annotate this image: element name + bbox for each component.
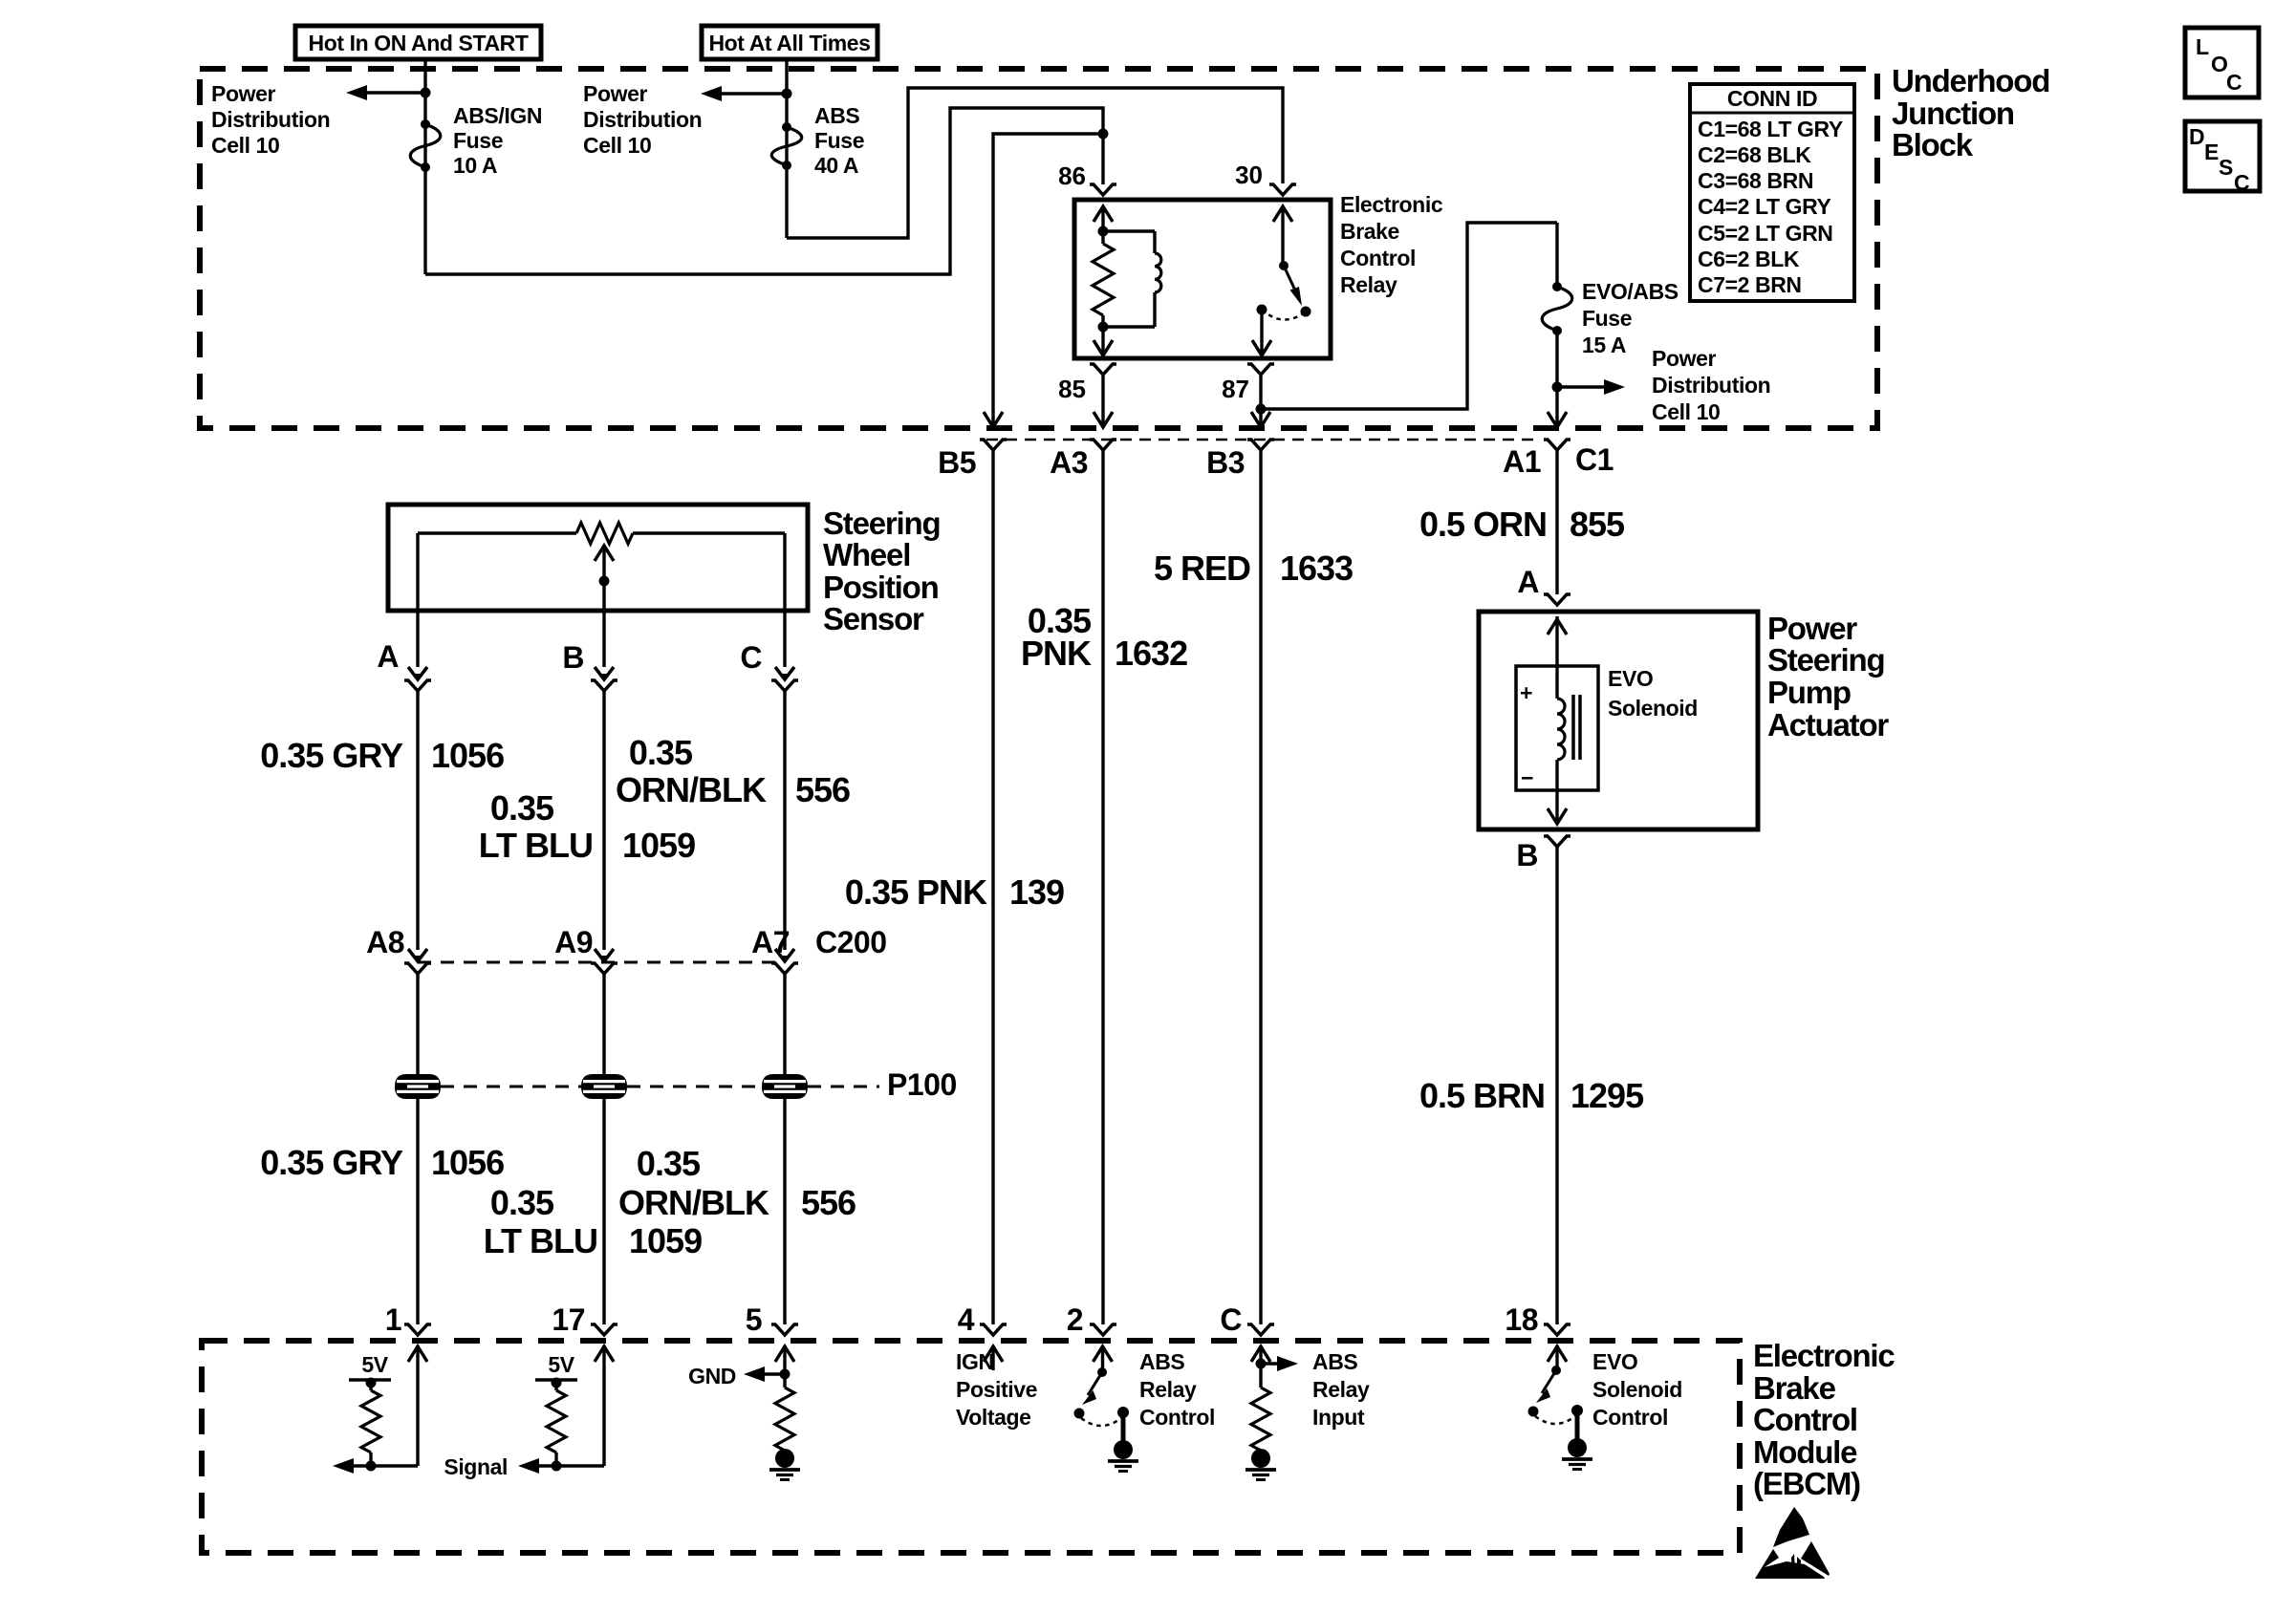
svg-text:Power: Power bbox=[1767, 611, 1857, 646]
svg-text:Steering: Steering bbox=[823, 506, 940, 541]
svg-text:30: 30 bbox=[1235, 161, 1263, 189]
connector chevron B3 bbox=[1247, 440, 1274, 450]
label: pin 85 bbox=[1058, 375, 1086, 403]
wire: pin C to C200 (0.35 ORN/BLK 556) bbox=[783, 691, 786, 950]
grommet P100 pass-through wire B bbox=[581, 1074, 627, 1099]
wire: A3 to EBCM pin 2 (0.35 PNK 1632) bbox=[1101, 450, 1104, 1324]
resistor R3 pin 1 pull-up bbox=[361, 1383, 380, 1466]
svg-text:Fuse: Fuse bbox=[1582, 306, 1632, 331]
solenoid core bars bbox=[1573, 695, 1580, 760]
svg-text:C200: C200 bbox=[815, 925, 887, 959]
arrow: EBCM pin 18 entry bbox=[1548, 1345, 1567, 1371]
arrow: B5 wire into EBCM connector line bbox=[984, 412, 1003, 427]
svg-text:A3: A3 bbox=[1050, 445, 1088, 480]
arrow: power distribution tap (left) from ABS feed bbox=[701, 86, 787, 101]
connector chevron at relay pin 85 bbox=[1090, 364, 1116, 375]
svg-text:(EBCM): (EBCM) bbox=[1753, 1466, 1860, 1501]
svg-text:2: 2 bbox=[1067, 1302, 1083, 1337]
resistor R6 pin C to ground bbox=[1251, 1388, 1270, 1451]
label: 0.35 GRY 1056 (upper) bbox=[260, 736, 504, 775]
svg-text:C: C bbox=[2226, 70, 2242, 95]
wire: sensor element left leg to pin A bbox=[416, 533, 419, 611]
legend box DESC bbox=[2185, 121, 2260, 195]
arrow: power distribution tap (right) bbox=[1557, 379, 1625, 395]
connector chevron A3 bbox=[1090, 440, 1116, 450]
svg-text:C: C bbox=[740, 640, 762, 675]
label: Power Distribution Cell 10 (left) bbox=[211, 81, 330, 158]
connector table CONN ID bbox=[1690, 84, 1854, 301]
svg-text:Electronic: Electronic bbox=[1753, 1338, 1895, 1373]
svg-text:Sensor: Sensor bbox=[823, 601, 924, 636]
relay K1 Electronic Brake Control Relay (box) bbox=[1074, 200, 1331, 358]
svg-text:EVO: EVO bbox=[1592, 1349, 1637, 1374]
label: EVO/ABS Fuse 15 A bbox=[1582, 279, 1679, 357]
label: connector C200 bbox=[815, 925, 887, 959]
fuse F2 ABS Fuse 40 A bbox=[771, 122, 802, 170]
svg-text:Solenoid: Solenoid bbox=[1608, 696, 1698, 721]
fuse F3 EVO/ABS Fuse 15 A bbox=[1542, 282, 1572, 335]
label: 0.5 ORN 855 bbox=[1419, 505, 1625, 544]
resistor R5 pin 5 to ground bbox=[775, 1388, 794, 1451]
C200 crossing marks wire C bbox=[771, 949, 798, 974]
svg-text:ORN/BLK: ORN/BLK bbox=[616, 770, 767, 809]
svg-text:Control: Control bbox=[1753, 1402, 1857, 1437]
svg-text:10 A: 10 A bbox=[453, 153, 497, 178]
arrow: pin C ABS Relay Input (right) bbox=[1261, 1356, 1298, 1371]
label: pin 86 bbox=[1058, 161, 1086, 190]
node: pin C junction dot bbox=[1256, 1359, 1267, 1369]
connector chevron EBCM pin 5 bbox=[771, 1324, 798, 1335]
arrow: actuator pin A entering solenoid bbox=[1548, 616, 1567, 666]
svg-text:GND: GND bbox=[688, 1364, 736, 1388]
svg-text:Fuse: Fuse bbox=[814, 128, 864, 153]
label: terminal A3 bbox=[1050, 445, 1088, 480]
label: Steering Wheel Position Sensor bbox=[823, 506, 940, 636]
svg-text:0.35 PNK: 0.35 PNK bbox=[845, 872, 987, 912]
svg-text:ORN/BLK: ORN/BLK bbox=[618, 1183, 769, 1222]
steering wheel position sensor (box) bbox=[388, 505, 808, 611]
svg-text:1056: 1056 bbox=[431, 736, 504, 775]
node: junction dot EVO fuse output bbox=[1552, 382, 1563, 393]
label: 0.35 ORN/BLK 556 (lower) bbox=[618, 1144, 856, 1222]
svg-text:E: E bbox=[2204, 140, 2219, 164]
power steering pump actuator (box) bbox=[1479, 612, 1758, 829]
wire: EVO/ABS fuse output down to A1/C1 terminal bbox=[1555, 331, 1558, 424]
svg-text:1059: 1059 bbox=[629, 1221, 702, 1260]
svg-text:0.35: 0.35 bbox=[629, 733, 693, 772]
switch throw arc (dashed) bbox=[1262, 310, 1306, 320]
svg-text:Power: Power bbox=[211, 81, 275, 106]
svg-text:0.5 ORN: 0.5 ORN bbox=[1419, 505, 1547, 544]
label: EBCM pin C bbox=[1220, 1302, 1242, 1337]
wire: P100 to EBCM pin 17 (0.35 LT BLU 1059) bbox=[602, 1099, 605, 1324]
wire: pin 18 switch to ground bbox=[1575, 1410, 1580, 1440]
label: Electronic Brake Control Module (EBCM) bbox=[1753, 1338, 1895, 1501]
label: EBCM pin 4 bbox=[958, 1302, 975, 1337]
wire: pin 2 switch to ground bbox=[1121, 1412, 1126, 1442]
label: C200 terminal A9 bbox=[554, 925, 593, 959]
svg-text:Electronic: Electronic bbox=[1340, 192, 1443, 217]
wire: relay pin 85 to A3 terminal bbox=[1101, 376, 1104, 424]
svg-text:5: 5 bbox=[746, 1302, 762, 1337]
svg-text:Actuator: Actuator bbox=[1767, 707, 1889, 742]
label: EBCM pin 1 bbox=[385, 1302, 401, 1337]
svg-text:Solenoid: Solenoid bbox=[1592, 1377, 1682, 1402]
wire: relay pin 87 down to B3 terminal bbox=[1259, 376, 1262, 424]
arrow: relay pin 85 exit (down) bbox=[1094, 327, 1113, 355]
connector chevron B5 bbox=[980, 440, 1007, 450]
svg-text:Hot In ON And START: Hot In ON And START bbox=[308, 31, 528, 55]
label: EBCM pin 17 bbox=[552, 1302, 585, 1337]
svg-text:Input: Input bbox=[1312, 1405, 1365, 1430]
svg-text:18: 18 bbox=[1505, 1302, 1538, 1337]
solenoid L2 EVO solenoid coil bbox=[1557, 666, 1565, 790]
svg-text:Steering: Steering bbox=[1767, 642, 1884, 678]
connector marks below sensor pin A bbox=[404, 611, 431, 691]
svg-text:A: A bbox=[377, 639, 399, 674]
svg-text:Control: Control bbox=[1139, 1405, 1215, 1430]
label: ABS Fuse 40 A bbox=[814, 103, 864, 178]
label: 0.5 BRN 1295 bbox=[1419, 1076, 1644, 1115]
underhood junction block boundary (dashed box) bbox=[200, 69, 1877, 428]
svg-text:1295: 1295 bbox=[1570, 1076, 1644, 1115]
label: actuator pin B bbox=[1516, 838, 1538, 872]
svg-text:0.35: 0.35 bbox=[490, 1183, 554, 1222]
svg-text:A1: A1 bbox=[1503, 444, 1541, 479]
svg-text:A: A bbox=[1517, 565, 1539, 599]
fuse F1 ABS/IGN Fuse 10 A bbox=[410, 119, 441, 172]
svg-text:Hot At All Times: Hot At All Times bbox=[708, 31, 870, 55]
node: relay fixed contact dot (pin 87) bbox=[1257, 305, 1267, 315]
label: Underhood Junction Block bbox=[1892, 63, 2049, 162]
svg-text:A9: A9 bbox=[554, 925, 593, 959]
arrow: EBCM pin C entry bbox=[1251, 1345, 1270, 1388]
svg-text:Power: Power bbox=[583, 81, 647, 106]
arrow: EBCM pin 17 entry bbox=[595, 1345, 614, 1466]
EVO solenoid inner box bbox=[1516, 666, 1598, 790]
EBCM boundary Electronic Brake Control Module (dashed box) bbox=[202, 1341, 1740, 1553]
svg-text:B: B bbox=[1516, 838, 1538, 872]
label: ABS/IGN Fuse 10 A bbox=[453, 103, 542, 178]
svg-text:Voltage: Voltage bbox=[956, 1405, 1031, 1430]
label: Hot In ON And START box bbox=[295, 26, 541, 59]
arrow: EBCM pin 5 entry bbox=[775, 1345, 794, 1388]
svg-text:−: − bbox=[1521, 765, 1533, 790]
label: 5V (pin 1 pull-up) bbox=[361, 1352, 388, 1377]
connector chevron at actuator pin B bbox=[1544, 836, 1570, 847]
label: 0.35 GRY 1056 (lower) bbox=[260, 1143, 504, 1182]
arrow: actuator pin B exit (down) bbox=[1548, 790, 1567, 824]
svg-text:139: 139 bbox=[1009, 872, 1064, 912]
grommet P100 pass-through wire A bbox=[395, 1074, 441, 1099]
wire: C200 to P100 wire A bbox=[416, 974, 419, 1074]
svg-text:17: 17 bbox=[552, 1302, 585, 1337]
label: C200 terminal A8 bbox=[366, 925, 404, 959]
legend box LOC bbox=[2185, 28, 2259, 97]
resistor R1 inside relay (parallel with coil) bbox=[1093, 231, 1114, 327]
label: 0.35 PNK 1632 bbox=[1021, 601, 1187, 673]
wire: C200 to P100 wire B bbox=[602, 974, 605, 1074]
wire: sensor element right leg to pin C bbox=[783, 533, 786, 611]
node: junction dot on ABS/IGN feed bbox=[421, 88, 431, 98]
label: C200 terminal A7 bbox=[751, 925, 790, 959]
C200 crossing marks wire A bbox=[404, 949, 431, 974]
svg-text:Block: Block bbox=[1892, 127, 1974, 162]
label: actuator pin A bbox=[1517, 565, 1539, 599]
svg-text:Brake: Brake bbox=[1753, 1370, 1836, 1406]
svg-text:C3=68 BRN: C3=68 BRN bbox=[1698, 168, 1813, 193]
connector C200 (dashed line) bbox=[418, 961, 784, 964]
arrow: pin 1 signal (left) bbox=[333, 1458, 418, 1474]
node: junction dot pin87/EVO fuse branch bbox=[1256, 404, 1267, 415]
svg-text:Cell 10: Cell 10 bbox=[211, 133, 279, 158]
svg-text:1633: 1633 bbox=[1280, 549, 1353, 588]
svg-text:ABS/IGN: ABS/IGN bbox=[453, 103, 542, 128]
ground symbol G4 (pin 18 driver) bbox=[1562, 1438, 1592, 1470]
svg-text:Pump: Pump bbox=[1767, 675, 1851, 710]
svg-text:EVO/ABS: EVO/ABS bbox=[1582, 279, 1679, 304]
svg-text:Underhood: Underhood bbox=[1892, 63, 2049, 98]
connector chevron at relay pin 87 bbox=[1247, 364, 1274, 375]
svg-text:1632: 1632 bbox=[1115, 634, 1187, 673]
label: 0.35 LT BLU 1059 (lower) bbox=[484, 1183, 702, 1260]
svg-text:Distribution: Distribution bbox=[211, 107, 330, 132]
svg-text:C1: C1 bbox=[1575, 442, 1614, 477]
label: Power Steering Pump Actuator bbox=[1767, 611, 1889, 742]
connector chevron EBCM pin 4 bbox=[980, 1324, 1007, 1335]
svg-text:Brake: Brake bbox=[1340, 219, 1399, 244]
svg-text:4: 4 bbox=[958, 1302, 975, 1337]
node: pin 5 GND junction dot bbox=[780, 1369, 791, 1380]
arrow: pin 17 Signal (left) bbox=[518, 1458, 604, 1474]
label: EBCM pin 5 bbox=[746, 1302, 762, 1337]
connector chevron A1/C1 bbox=[1544, 440, 1570, 450]
label: 5 RED 1633 bbox=[1154, 549, 1353, 588]
label: terminal A1 bbox=[1503, 444, 1541, 479]
label: Electronic Brake Control Relay bbox=[1340, 192, 1443, 297]
switch SW1 relay contact blade bbox=[1279, 261, 1302, 306]
svg-text:CONN ID: CONN ID bbox=[1727, 86, 1817, 111]
node: pin 1 signal junction dot bbox=[366, 1461, 377, 1472]
svg-text:Cell 10: Cell 10 bbox=[1652, 399, 1720, 424]
svg-text:S: S bbox=[2219, 155, 2233, 180]
svg-text:Positive: Positive bbox=[956, 1377, 1037, 1402]
wire: B5 to EBCM pin 4 (0.35 PNK 139) bbox=[991, 450, 994, 1324]
arrow: A1/C1 wire into EBCM connector line bbox=[1548, 412, 1567, 427]
switch SW3 EVO solenoid control driver bbox=[1528, 1366, 1584, 1424]
svg-text:ABS: ABS bbox=[1312, 1349, 1357, 1374]
5V rail bar (pin 1) bbox=[349, 1378, 391, 1388]
label: terminal B5 bbox=[938, 445, 976, 480]
arrow: EBCM pin 2 entry bbox=[1094, 1345, 1113, 1373]
connector marks below sensor pin B bbox=[591, 611, 617, 691]
resistor R2 sensor element bbox=[418, 523, 785, 544]
label: EBCM pin 2 bbox=[1067, 1302, 1083, 1337]
arrow: relay pin 87 exit (down) bbox=[1252, 310, 1271, 355]
svg-text:Relay: Relay bbox=[1340, 272, 1397, 297]
arrow: EBCM pin 1 entry bbox=[408, 1345, 427, 1466]
wire: ABS fuse output to relay pin 30 (route right-up-right) bbox=[787, 88, 1283, 238]
wire: C1 to power steering pump actuator pin A (0.5 ORN 855) bbox=[1555, 450, 1558, 594]
label: ABS Relay Input bbox=[1312, 1349, 1370, 1430]
svg-text:C5=2 LT GRN: C5=2 LT GRN bbox=[1698, 221, 1833, 246]
svg-text:0.5 BRN: 0.5 BRN bbox=[1419, 1076, 1545, 1115]
arrow: relay pin 30 entering switch bbox=[1273, 206, 1292, 266]
5V rail bar (pin 17) bbox=[535, 1378, 577, 1388]
wire: actuator pin B to EBCM pin 18 (0.5 BRN 1295) bbox=[1555, 847, 1558, 1324]
svg-text:C2=68 BLK: C2=68 BLK bbox=[1698, 142, 1811, 167]
wire: EVO/ABS fuse feed bbox=[1555, 223, 1558, 287]
svg-text:B5: B5 bbox=[938, 445, 976, 480]
svg-text:C: C bbox=[2234, 170, 2250, 195]
label: EBCM pin 18 bbox=[1505, 1302, 1538, 1337]
label: sensor pin B bbox=[562, 640, 584, 675]
wire: C200 to P100 wire C bbox=[783, 974, 786, 1074]
svg-text:L: L bbox=[2196, 34, 2209, 59]
label: EVO Solenoid bbox=[1608, 666, 1698, 721]
connector line below junction block (thin dashed) bbox=[986, 439, 1541, 441]
svg-text:5 RED: 5 RED bbox=[1154, 549, 1250, 588]
wire: Hot At All Times feed down to ABS fuse bbox=[785, 59, 788, 238]
svg-text:0.35 GRY: 0.35 GRY bbox=[260, 736, 403, 775]
label: grommet P100 bbox=[887, 1067, 957, 1102]
ESD sensitivity symbol bbox=[1755, 1507, 1830, 1579]
svg-text:Junction: Junction bbox=[1892, 96, 2014, 131]
wire: Hot In ON And START feed down to ABS/IGN fuse bbox=[423, 59, 426, 274]
svg-text:ABS: ABS bbox=[814, 103, 859, 128]
svg-text:Module: Module bbox=[1753, 1434, 1857, 1470]
connector chevron EBCM pin 17 bbox=[591, 1324, 617, 1335]
wire: pin B to C200 (0.35 LT BLU 1059) bbox=[602, 691, 605, 950]
switch SW2 ABS relay control driver bbox=[1074, 1367, 1130, 1426]
connector chevron EBCM pin 1 bbox=[404, 1324, 431, 1335]
label: terminal B3 bbox=[1206, 445, 1245, 480]
arrow: relay pin 86 entering coil bbox=[1094, 206, 1113, 231]
svg-text:Position: Position bbox=[823, 570, 939, 605]
svg-text:1: 1 bbox=[385, 1302, 401, 1337]
label: 0.35 ORN/BLK 556 (upper) bbox=[616, 733, 850, 809]
label: Signal bbox=[444, 1454, 508, 1479]
label: Power Distribution Cell 10 (middle) bbox=[583, 81, 702, 158]
svg-text:0.35: 0.35 bbox=[637, 1144, 701, 1183]
node: coil top junction dot bbox=[1098, 226, 1109, 237]
svg-text:40 A: 40 A bbox=[814, 153, 858, 178]
svg-text:C4=2 LT GRY: C4=2 LT GRY bbox=[1698, 194, 1830, 219]
svg-text:ABS: ABS bbox=[1139, 1349, 1184, 1374]
svg-text:LT BLU: LT BLU bbox=[479, 826, 593, 865]
wire: B3 to EBCM pin C (5 RED 1633) bbox=[1259, 450, 1262, 1324]
arrow: power distribution tap (left) from ABS/IGN feed bbox=[346, 85, 425, 100]
wire: branch to B5 terminal bbox=[993, 134, 1103, 424]
label: solenoid - terminal bbox=[1521, 765, 1533, 790]
connector chevron EBCM pin C bbox=[1247, 1324, 1274, 1335]
label: pin 87 bbox=[1222, 375, 1249, 403]
wire: P100 to EBCM pin 1 (0.35 GRY 1056) bbox=[416, 1099, 419, 1324]
wire: ABS/IGN fuse output to relay pin 86 (route right-up-right) bbox=[425, 108, 1103, 274]
wire: pin A to C200 (0.35 GRY 1056) bbox=[416, 691, 419, 950]
wire: pin 87 branch to EVO/ABS fuse (route right-up-right) bbox=[1261, 223, 1557, 409]
arrow: EBCM pin 4 entry bbox=[984, 1345, 1003, 1370]
svg-text:D: D bbox=[2189, 124, 2205, 149]
resistor R4 pin 17 pull-up bbox=[547, 1383, 566, 1466]
ground symbol G1 (pin 5) bbox=[769, 1449, 800, 1480]
connector chevron at relay pin 30 bbox=[1269, 184, 1296, 195]
svg-text:Control: Control bbox=[1592, 1405, 1668, 1430]
label: EVO Solenoid Control bbox=[1592, 1349, 1682, 1430]
svg-text:5V: 5V bbox=[548, 1352, 574, 1377]
svg-text:Cell 10: Cell 10 bbox=[583, 133, 651, 158]
label: Power Distribution Cell 10 (right) bbox=[1652, 346, 1770, 424]
node: pin 17 signal junction dot bbox=[552, 1461, 562, 1472]
svg-text:5V: 5V bbox=[361, 1352, 388, 1377]
label: 0.35 PNK 139 bbox=[845, 872, 1064, 912]
svg-text:C1=68 LT GRY: C1=68 LT GRY bbox=[1698, 117, 1843, 141]
svg-text:B: B bbox=[562, 640, 584, 675]
label: IGN Positive Voltage bbox=[956, 1349, 1037, 1430]
connector chevron at actuator pin A bbox=[1544, 594, 1570, 605]
svg-text:556: 556 bbox=[801, 1183, 856, 1222]
svg-text:15 A: 15 A bbox=[1582, 333, 1626, 357]
ground symbol G2 (pin 2 driver) bbox=[1108, 1440, 1138, 1472]
svg-text:IGN: IGN bbox=[956, 1349, 994, 1374]
svg-text:Distribution: Distribution bbox=[1652, 373, 1770, 398]
svg-text:1059: 1059 bbox=[622, 826, 695, 865]
svg-text:A7: A7 bbox=[751, 925, 790, 959]
svg-text:0.35: 0.35 bbox=[490, 788, 554, 828]
svg-text:Power: Power bbox=[1652, 346, 1716, 371]
grommet P100 pass-through wire C bbox=[762, 1074, 808, 1099]
label: GND bbox=[688, 1364, 736, 1388]
svg-text:PNK: PNK bbox=[1021, 634, 1092, 673]
svg-text:LT BLU: LT BLU bbox=[484, 1221, 597, 1260]
label: solenoid + terminal bbox=[1520, 680, 1532, 705]
label: terminal C1 bbox=[1575, 442, 1614, 477]
svg-text:556: 556 bbox=[795, 770, 850, 809]
coil L1 relay coil bbox=[1103, 231, 1161, 327]
label: sensor pin A bbox=[377, 639, 399, 674]
label: ABS Relay Control bbox=[1139, 1349, 1215, 1430]
switch blade tip dot bbox=[1301, 307, 1311, 317]
arrow: B3 wire into EBCM connector line bbox=[1251, 412, 1270, 427]
svg-text:86: 86 bbox=[1058, 161, 1086, 190]
svg-text:0.35 GRY: 0.35 GRY bbox=[260, 1143, 403, 1182]
svg-text:C6=2 BLK: C6=2 BLK bbox=[1698, 247, 1800, 271]
connector chevron at relay pin 86 bbox=[1090, 184, 1116, 195]
node: coil bottom junction dot bbox=[1098, 322, 1109, 333]
svg-text:C7=2 BRN: C7=2 BRN bbox=[1698, 272, 1802, 297]
connector chevron EBCM pin 2 bbox=[1090, 1324, 1116, 1335]
svg-text:Control: Control bbox=[1340, 246, 1416, 270]
node: junction dot on ABS feed bbox=[782, 89, 792, 99]
svg-text:Fuse: Fuse bbox=[453, 128, 503, 153]
svg-text:P100: P100 bbox=[887, 1067, 957, 1102]
label: sensor pin C bbox=[740, 640, 762, 675]
svg-text:A8: A8 bbox=[366, 925, 404, 959]
svg-text:Signal: Signal bbox=[444, 1454, 508, 1479]
label: 0.35 LT BLU 1059 (upper) bbox=[479, 788, 695, 865]
P100 dashed interconnect line bbox=[441, 1086, 879, 1088]
C200 crossing marks wire B bbox=[591, 949, 617, 974]
wiper arrow of position sensor bbox=[595, 546, 614, 611]
connector marks below sensor pin C bbox=[771, 611, 798, 691]
svg-text:855: 855 bbox=[1570, 505, 1625, 544]
svg-text:87: 87 bbox=[1222, 375, 1249, 403]
svg-text:Relay: Relay bbox=[1139, 1377, 1197, 1402]
svg-text:Wheel: Wheel bbox=[823, 537, 910, 572]
ground symbol G3 (pin C) bbox=[1245, 1449, 1276, 1480]
label: pin 30 bbox=[1235, 161, 1263, 189]
svg-text:EVO: EVO bbox=[1608, 666, 1653, 691]
